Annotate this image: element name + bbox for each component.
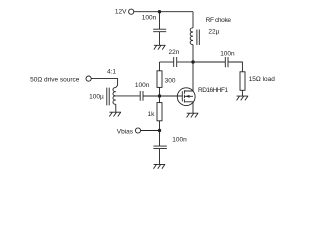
node 12V junction xyxy=(158,10,161,13)
svg-text:12V: 12V xyxy=(115,8,127,15)
transistor Q1 RD16HHF1 xyxy=(177,87,228,106)
wire transformer tap xyxy=(116,95,140,97)
wire output rail xyxy=(193,61,225,63)
ground G5 xyxy=(237,96,249,100)
resistor R3 1k xyxy=(148,103,163,121)
svg-text:Vbias: Vbias xyxy=(117,128,134,135)
wire 12V rail xyxy=(134,11,193,13)
capacitor C2 22n feedback xyxy=(169,49,180,67)
svg-text:100n: 100n xyxy=(142,15,157,22)
node drain junction xyxy=(191,60,194,63)
wire to decoupling cap xyxy=(159,12,161,30)
capacitor C3 100n output xyxy=(220,50,235,67)
svg-text:100n: 100n xyxy=(172,136,187,143)
ground G2 xyxy=(109,112,121,116)
wire feedback right segment xyxy=(177,61,193,63)
wire choke to drain node xyxy=(192,45,194,62)
svg-text:RF choke: RF choke xyxy=(206,17,232,24)
svg-text:100n: 100n xyxy=(135,82,150,89)
node vbias junction xyxy=(158,129,161,132)
resistor R1 300 xyxy=(157,71,176,88)
resistor R2 15 ohm load xyxy=(240,72,275,91)
wire vbias to node xyxy=(140,130,159,132)
svg-text:15Ω load: 15Ω load xyxy=(249,76,276,83)
wire feedback corner down xyxy=(159,62,161,71)
capacitor C5 100n bias bypass xyxy=(153,136,187,148)
terminal 12V xyxy=(115,8,134,15)
svg-text:50Ω drive source: 50Ω drive source xyxy=(30,76,80,83)
wire bypass cap to ground xyxy=(159,149,161,165)
svg-text:100µ: 100µ xyxy=(89,93,104,100)
inductor L1 RF choke 22u xyxy=(190,17,231,45)
wire gate node to 1k xyxy=(159,96,161,103)
capacitor C1 100n decoupling xyxy=(142,15,166,32)
wire load to ground xyxy=(241,90,243,96)
wire 300 to gate node xyxy=(159,87,161,96)
svg-text:300: 300 xyxy=(165,77,176,84)
svg-text:100n: 100n xyxy=(220,50,235,57)
wire vbias node to bypass cap xyxy=(159,131,161,147)
wire coupling cap to gate node xyxy=(143,95,159,97)
ground G4 xyxy=(154,164,166,168)
wire output to load xyxy=(228,62,242,72)
node gate junction xyxy=(158,94,161,97)
transformer T1 4:1 xyxy=(89,68,116,105)
terminal Vbias xyxy=(117,128,141,135)
wire source to transformer xyxy=(91,79,118,88)
svg-text:22n: 22n xyxy=(169,49,180,56)
svg-text:4:1: 4:1 xyxy=(107,68,116,75)
wire cap to ground xyxy=(159,32,161,46)
wire 1k to vbias node xyxy=(159,121,161,131)
wire drain lead xyxy=(192,62,194,91)
terminal 50 ohm drive source xyxy=(30,76,91,83)
wire source lead to ground xyxy=(192,102,194,113)
svg-text:RD16HHF1: RD16HHF1 xyxy=(198,87,228,94)
svg-text:1k: 1k xyxy=(148,111,156,118)
wire transformer bottom to ground xyxy=(115,104,117,112)
wire gate lead xyxy=(160,95,183,97)
capacitor C4 100n gate coupling xyxy=(135,82,150,101)
ground G3 xyxy=(187,113,199,117)
ground G1 xyxy=(154,45,166,49)
wire drain column top xyxy=(192,12,194,28)
svg-text:22µ: 22µ xyxy=(208,28,219,35)
wire feedback left segment xyxy=(160,61,174,63)
